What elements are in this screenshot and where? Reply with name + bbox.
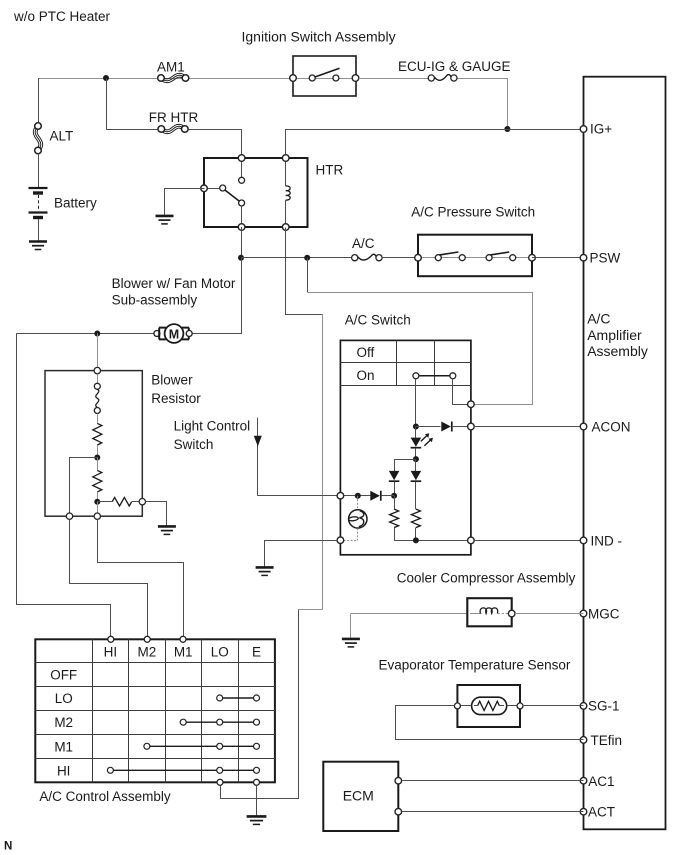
- svg-text:Amplifier: Amplifier: [587, 327, 642, 343]
- fusible link FR HTR: [158, 126, 165, 133]
- svg-text:A/C Control Assembly: A/C Control Assembly: [39, 789, 171, 804]
- terminal ACON: [580, 423, 587, 430]
- svg-text:M1: M1: [174, 645, 193, 660]
- wire: LED to lower node: [415, 449, 417, 460]
- pin: HTR top-left: [238, 155, 245, 162]
- node: PSW branch junction: [304, 255, 310, 261]
- svg-text:E: E: [252, 645, 261, 660]
- svg-text:AC1: AC1: [588, 774, 614, 789]
- switch blade: ignition: [314, 68, 340, 77]
- svg-text:A/C: A/C: [352, 236, 375, 251]
- contacts: M2 row: [186, 721, 253, 723]
- contact: HTR fixed: [239, 177, 245, 183]
- pin: HTR left: [201, 185, 208, 192]
- thermal fuse in blower resistor: [94, 383, 100, 389]
- node: IG+ rail junction: [504, 126, 510, 132]
- pin: sensor left: [454, 703, 460, 709]
- fuse A/C: [352, 255, 358, 261]
- svg-text:LO: LO: [211, 645, 229, 660]
- wire: junction down to FR HTR row: [107, 79, 159, 130]
- wire: On right contact to PSW pin: [453, 379, 468, 405]
- wire: ACON node to diode: [416, 426, 441, 428]
- relay box HTR: [204, 158, 308, 227]
- node: blower bottom tap: [94, 499, 100, 505]
- wire: HTR to blower control E-line: [286, 228, 323, 315]
- wire: motor row to HI column: [17, 334, 111, 640]
- svg-text:ACT: ACT: [588, 805, 615, 820]
- contact: On right: [450, 373, 456, 379]
- ignition switch box: [293, 56, 356, 96]
- node: top rail junction: [103, 75, 109, 81]
- evaporator sensor box: [457, 685, 520, 727]
- wire: light control to A/C switch: [258, 495, 337, 497]
- A/C control assembly table box: [35, 639, 275, 782]
- motor M1 blower: [154, 331, 160, 337]
- svg-text:N: N: [4, 841, 12, 853]
- diode D1 to ACON: [441, 422, 451, 432]
- wire: ALT to battery: [38, 154, 40, 187]
- pin: A/C switch lamp return: [337, 537, 344, 544]
- wire: HTR to ground: [165, 189, 205, 216]
- node: IND junction: [391, 493, 397, 499]
- ground: A/C switch lamp: [256, 566, 274, 569]
- ground: HTR: [156, 215, 174, 218]
- LED emission arrows: [421, 436, 430, 446]
- wire: ECM ACT to amplifier: [402, 811, 584, 813]
- pin: A/C switch PSW side: [468, 401, 475, 408]
- pin: HTR bottom-right: [282, 224, 289, 231]
- svg-text:Evaporator Temperature Sensor: Evaporator Temperature Sensor: [379, 657, 571, 672]
- svg-text:Blower: Blower: [151, 373, 193, 388]
- ECM box: [323, 762, 398, 831]
- resistor R2 blower: [97, 458, 99, 471]
- terminal MGC: [580, 610, 587, 617]
- A/C amplifier assembly box: [584, 77, 666, 830]
- pin: ECM ACT: [395, 808, 402, 815]
- contact: ignition inner left: [309, 75, 315, 81]
- wire: compressor to MGC terminal: [515, 613, 584, 615]
- resistor R5: [415, 482, 417, 509]
- svg-text:On: On: [357, 368, 375, 383]
- svg-text:TEfin: TEfin: [591, 733, 623, 748]
- pin: A/C switch IND: [468, 537, 475, 544]
- contact: HTR blade end: [239, 200, 245, 206]
- contacts: HI row: [113, 769, 253, 771]
- pin: resistor bottom-left: [66, 513, 72, 519]
- svg-text:Sub-assembly: Sub-assembly: [112, 293, 198, 308]
- pin: sensor right: [517, 703, 523, 709]
- svg-text:ECU-IG & GAUGE: ECU-IG & GAUGE: [398, 59, 511, 74]
- wire: resistor mid pin to M1 column: [98, 520, 184, 640]
- svg-text:Switch: Switch: [174, 437, 214, 452]
- wire: light control feed with arrow: [257, 418, 259, 496]
- switch blade: pressure 1: [436, 252, 458, 255]
- pin: pressure left: [415, 254, 422, 261]
- wire: PSW row left segment: [241, 257, 352, 259]
- pin: resistor bottom-mid: [94, 513, 100, 519]
- contact: pressure c1: [435, 255, 441, 261]
- svg-text:IND -: IND -: [591, 534, 623, 549]
- wire: split to right diode branch: [415, 459, 417, 471]
- lamp: illumination bulb: [357, 496, 359, 510]
- pin: pressure right: [529, 254, 536, 261]
- wire: D3 to IND node: [394, 482, 396, 496]
- diode D5 horizontal: [370, 491, 380, 501]
- wire: E column to ground: [256, 785, 258, 816]
- wire: ALT drop: [38, 78, 40, 126]
- pin: ignition right: [352, 75, 359, 82]
- contact: HTR pivot: [220, 185, 226, 191]
- svg-text:SG-1: SG-1: [588, 699, 620, 714]
- wire: lamp return to ground: [265, 541, 338, 568]
- table lines: A/C switch: [340, 362, 471, 364]
- svg-text:PSW: PSW: [590, 250, 621, 265]
- pin: resistor top: [94, 367, 100, 373]
- svg-text:Battery: Battery: [54, 196, 97, 211]
- node: motor-resistor junction: [94, 331, 100, 337]
- pin: HTR top-right: [282, 155, 289, 162]
- resistor R4: [394, 496, 396, 509]
- pin: A/C switch ACON: [468, 423, 475, 430]
- svg-text:Blower w/ Fan Motor: Blower w/ Fan Motor: [112, 276, 236, 291]
- switch blade: HTR relay: [225, 190, 240, 201]
- pin: table E bottom: [254, 779, 260, 785]
- wire: motor junction to resistor box: [97, 334, 99, 371]
- terminal IND-: [580, 537, 587, 544]
- wire: bottom tap to bottom pin: [97, 502, 99, 517]
- terminal AC1: [580, 777, 587, 784]
- A/C switch box: [340, 340, 471, 554]
- pin: table LO bottom: [217, 779, 223, 785]
- wire: ACON pin to amplifier: [474, 426, 583, 428]
- wire: pressure switch to PSW terminal: [532, 257, 584, 259]
- contact: ignition inner right: [333, 75, 339, 81]
- svg-text:Off: Off: [357, 345, 375, 360]
- table row lines: [35, 662, 275, 664]
- wire: battery to ground: [38, 219, 40, 242]
- A/C pressure switch box: [418, 235, 532, 277]
- ground: control assembly: [247, 815, 267, 818]
- node: blower tap M2: [94, 455, 100, 461]
- diode D4 right: [411, 471, 422, 480]
- wire: HTR contact hang: [241, 158, 243, 177]
- wire: On row contact bar: [419, 375, 450, 377]
- wire: top pin to thermal fuse: [97, 374, 99, 384]
- wire: resistor right pin to ground: [146, 502, 167, 527]
- svg-text:Assembly: Assembly: [587, 343, 648, 359]
- wire: motor row left: [16, 333, 154, 335]
- ground: blower resistor: [158, 525, 176, 528]
- node: PSW-motor junction: [238, 255, 244, 261]
- wire: ECU-IG fuse to IG+ rail: [458, 79, 508, 130]
- wire: FR HTR to HTR relay: [189, 130, 242, 159]
- svg-text:OFF: OFF: [50, 668, 77, 683]
- terminal ACT: [580, 808, 587, 815]
- wire: IND pin to amplifier: [474, 540, 583, 542]
- wire: light input row: [344, 495, 371, 497]
- node: ACON junction: [413, 424, 419, 430]
- svg-text:HTR: HTR: [316, 163, 344, 178]
- resistor R3 blower horizontal: [97, 501, 112, 503]
- wire: thermal fuse to R1: [97, 414, 99, 424]
- svg-text:Light Control: Light Control: [174, 419, 251, 434]
- table column lines: [92, 639, 94, 782]
- fuse ECU-IG & GAUGE: [428, 75, 434, 81]
- wire: ignition to ECU-IG fuse: [359, 78, 428, 80]
- fusible link ALT: [35, 123, 42, 130]
- wire: HTR blade to bottom pin: [241, 206, 243, 227]
- wire: tap to left bottom pin: [70, 458, 98, 517]
- wire: battery top rail: [38, 78, 293, 80]
- pin: table HI column: [108, 636, 114, 642]
- fusible link AM1: [158, 75, 165, 82]
- svg-text:A/C: A/C: [587, 310, 610, 326]
- svg-text:ALT: ALT: [50, 129, 74, 144]
- contact: On left: [413, 373, 419, 379]
- contact: pressure c3: [486, 255, 492, 261]
- svg-text:M2: M2: [54, 715, 73, 730]
- wire: IND rail: [394, 540, 468, 542]
- contact: pressure c4: [510, 255, 516, 261]
- wire: fuse to pressure switch: [382, 257, 418, 259]
- svg-text:MGC: MGC: [588, 607, 620, 622]
- wire: R1 to tap: [97, 445, 99, 458]
- pin: ECM AC1: [395, 777, 402, 784]
- svg-text:ECM: ECM: [343, 788, 374, 804]
- switch blade: pressure 2: [487, 252, 509, 255]
- svg-text:FR HTR: FR HTR: [149, 110, 199, 125]
- ground: battery: [29, 240, 47, 243]
- svg-text:M: M: [169, 327, 179, 341]
- wire: On left contact down to ACON node: [415, 379, 417, 427]
- wire: HTR pivot to left pin: [204, 188, 220, 190]
- node: IND rail junction: [413, 537, 419, 543]
- diode D3 left: [389, 471, 400, 480]
- pin: compressor MGC: [508, 610, 515, 617]
- svg-text:w/o PTC Heater: w/o PTC Heater: [13, 9, 111, 24]
- svg-text:Ignition Switch Assembly: Ignition Switch Assembly: [242, 29, 396, 45]
- ground: compressor: [350, 614, 352, 639]
- svg-text:A/C Pressure Switch: A/C Pressure Switch: [411, 205, 535, 220]
- thermistor: [461, 705, 472, 707]
- contacts: M1 row: [150, 745, 254, 747]
- wire: HTR to PSW row: [241, 227, 243, 258]
- terminal SG-1: [580, 703, 587, 710]
- pin: resistor right: [139, 499, 145, 505]
- pin: table M2 column: [144, 636, 150, 642]
- svg-text:AM1: AM1: [157, 60, 185, 75]
- wire: sensor to TEfin: [396, 706, 584, 740]
- wire: compressor ground feed: [351, 613, 467, 615]
- node: diode split: [413, 456, 419, 462]
- pin: A/C switch light input: [337, 492, 344, 499]
- svg-text:Resistor: Resistor: [151, 391, 201, 406]
- wire: PSW junction to A/C switch: [307, 258, 309, 293]
- svg-text:HI: HI: [57, 763, 71, 778]
- cooler compressor box: [467, 598, 511, 626]
- wire: split to left diode branch: [395, 460, 416, 472]
- wire: inside ignition switch: [296, 78, 353, 80]
- terminal IG+: [580, 126, 587, 133]
- blower resistor box: [45, 371, 142, 517]
- svg-text:LO: LO: [55, 691, 73, 706]
- contact: pressure c2: [459, 255, 465, 261]
- svg-text:Cooler Compressor Assembly: Cooler Compressor Assembly: [397, 571, 576, 586]
- coil: magnetic clutch: [470, 613, 482, 615]
- LED D2 indicator: [415, 427, 417, 438]
- wire: IG+ rail: [286, 130, 584, 159]
- svg-text:M1: M1: [54, 739, 73, 754]
- svg-text:M2: M2: [138, 645, 157, 660]
- pin: HTR bottom-left: [238, 224, 245, 231]
- wire: ECM AC1 to amplifier: [402, 780, 584, 782]
- contacts: LO row: [223, 697, 254, 699]
- svg-text:HI: HI: [104, 645, 118, 660]
- svg-text:IG+: IG+: [590, 122, 612, 137]
- resistor R1 blower: [93, 423, 102, 445]
- pin: ignition left: [290, 75, 297, 82]
- terminal PSW: [580, 254, 587, 261]
- svg-text:A/C Switch: A/C Switch: [345, 313, 411, 328]
- coil: HTR relay winding: [285, 158, 287, 186]
- battery: [29, 187, 48, 189]
- pin: table M1 column: [180, 636, 186, 642]
- node: lamp tap: [355, 493, 361, 499]
- wire: inside pressure switch: [421, 257, 529, 259]
- terminal TEfin: [580, 737, 587, 744]
- wire: resistor left pin to M2 column: [70, 520, 148, 640]
- wire: motor to PSW riser: [192, 258, 242, 334]
- wire: sensor to SG-1: [523, 705, 584, 707]
- svg-text:ACON: ACON: [592, 420, 631, 435]
